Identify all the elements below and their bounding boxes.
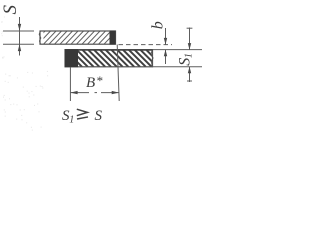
lower plate top edge extension line (to the right) [153,49,203,51]
upper plate (hatched, with solder fillet bar at right end) [27,31,128,45]
svg-text:B: B [86,75,95,91]
svg-text:S1: S1 [176,53,194,66]
dimension b lower arrow [164,50,167,64]
dashed extension line from upper plate bottom (gap b reference) [119,44,173,46]
svg-text:b: b [149,21,166,29]
svg-text:*: * [96,73,103,88]
formula S1 >= S [62,108,103,126]
label b (solder gap) [149,21,166,29]
label S (upper plate thickness) [0,5,21,15]
lower plate (hatched, with solder fillet bar at left end) [59,49,163,67]
dimension b upper arrow [164,28,167,45]
dimension S1 upper arrow [187,28,193,50]
dimension S top extension line [3,30,34,32]
svg-text:S1: S1 [62,108,74,126]
dimension S bottom extension line [3,43,34,45]
dimension B* right extension line [117,45,119,102]
dimension B* line with outward arrows [70,91,119,94]
dimension S1 lower arrow [187,67,192,83]
label S1 (lower plate thickness) [176,53,194,66]
svg-text:S: S [95,108,103,124]
dimension S arrow line [18,17,21,56]
svg-text:S: S [0,5,21,15]
dimension B* left extension line [69,68,71,102]
label B* (overlap width) [86,73,103,91]
lower plate bottom edge extension line (to the right) [153,66,203,68]
